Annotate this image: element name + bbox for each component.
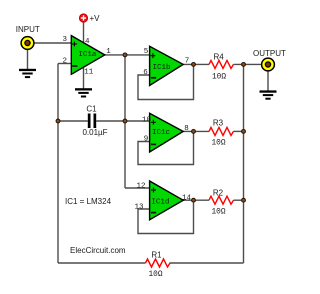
power +V symbol — [79, 14, 100, 23]
svg-text:R2: R2 — [213, 189, 224, 198]
wire output jack down to ground — [267, 72, 269, 92]
svg-text:R4: R4 — [213, 53, 224, 62]
svg-text:6: 6 — [143, 69, 148, 77]
wire R4 to output jack — [234, 63, 262, 65]
wire right bus vertical — [243, 65, 245, 264]
svg-text:13: 13 — [134, 204, 144, 212]
wire bottom row left of R1 — [58, 262, 146, 264]
wire IC1c feedback loop — [138, 131, 194, 164]
resistor R1 — [146, 251, 171, 279]
node junction IC1a out / IC1b pin5 — [123, 53, 127, 57]
resistor R3 — [209, 119, 234, 148]
op-amp U1b (IC1b) — [150, 46, 184, 85]
wire C1 row right to IC1c pin 10 — [96, 120, 149, 122]
svg-text:+V: +V — [90, 14, 101, 23]
resistor R2 — [209, 189, 234, 217]
wire R2 to right bus — [234, 199, 244, 201]
svg-text:2: 2 — [63, 58, 68, 66]
wire input jack to pin 3 — [35, 42, 72, 44]
wire pin 12 row — [125, 187, 150, 189]
svg-text:ElecCircuit.com: ElecCircuit.com — [70, 246, 126, 255]
node junction R2 right — [242, 198, 246, 202]
svg-text:10Ω: 10Ω — [212, 73, 226, 81]
svg-text:IC1c: IC1c — [152, 129, 170, 137]
node junction R4 right — [242, 63, 246, 67]
svg-text:8: 8 — [184, 125, 189, 133]
wire R3 to right bus — [234, 130, 244, 132]
wire IC1d output to R2 — [183, 199, 209, 201]
wire IC1c output to R3 — [183, 130, 209, 132]
svg-text:R3: R3 — [213, 119, 224, 128]
svg-text:OUTPUT: OUTPUT — [253, 49, 286, 58]
svg-text:7: 7 — [185, 57, 190, 65]
svg-text:5: 5 — [144, 48, 149, 56]
svg-text:10Ω: 10Ω — [211, 208, 225, 216]
wire IC1b output to R4 — [183, 63, 209, 65]
op-amp U1c (IC1c) — [150, 113, 184, 152]
wire bottom row right of R1 — [170, 262, 244, 264]
node junction mid bus / C1 / pin10 — [123, 119, 127, 123]
wire IC1b feedback loop — [138, 64, 194, 99]
wire +V to pin 4 — [83, 22, 85, 43]
svg-text:INPUT: INPUT — [16, 25, 40, 34]
svg-text:11: 11 — [84, 68, 94, 76]
svg-text:1: 1 — [106, 48, 111, 56]
wire IC1d feedback loop — [138, 200, 194, 233]
wire pin 11 to ground — [83, 68, 85, 89]
wire input jack down to ground — [27, 50, 29, 70]
svg-text:IC1d: IC1d — [151, 198, 169, 206]
svg-text:10Ω: 10Ω — [211, 140, 225, 148]
svg-text:IC1a: IC1a — [78, 51, 97, 59]
svg-text:3: 3 — [63, 36, 68, 44]
ground below IC1a pin 11 — [75, 88, 92, 97]
svg-text:10: 10 — [142, 117, 152, 125]
node junction IC1c out — [192, 130, 196, 134]
svg-text:14: 14 — [182, 194, 192, 202]
node junction R3 right — [242, 130, 246, 134]
wire pin 2 feedback left — [58, 63, 71, 65]
svg-text:9: 9 — [144, 135, 149, 143]
svg-text:C1: C1 — [86, 104, 97, 113]
node junction IC1d out — [192, 198, 196, 202]
node junction left bus / C1 — [56, 119, 60, 123]
svg-text:IC1b: IC1b — [152, 64, 170, 72]
op-amp U1a (IC1a) — [71, 36, 105, 75]
svg-text:R1: R1 — [151, 251, 162, 260]
svg-text:12: 12 — [136, 182, 145, 190]
wire IC1a output to IC1b pin 5 — [105, 54, 150, 56]
op-amp U1d (IC1d) — [150, 181, 184, 220]
wire mid bus vertical — [124, 55, 126, 188]
svg-text:10Ω: 10Ω — [148, 271, 162, 279]
svg-text:0.01µF: 0.01µF — [82, 128, 107, 137]
svg-text:IC1 = LM324: IC1 = LM324 — [65, 197, 112, 206]
node junction IC1b out — [192, 63, 196, 67]
svg-text:4: 4 — [85, 38, 90, 46]
ground below input jack — [19, 69, 36, 78]
resistor R4 — [209, 53, 234, 82]
input jack J1 — [16, 25, 40, 50]
capacitor C1 — [82, 104, 107, 137]
wire left bus vertical — [57, 64, 59, 264]
wire C1 row left — [58, 120, 88, 122]
ground below output jack — [260, 90, 277, 99]
output jack J2 — [253, 49, 286, 71]
